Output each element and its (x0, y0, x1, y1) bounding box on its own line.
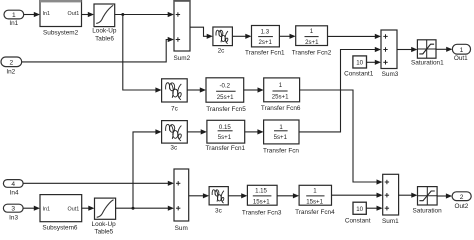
block Transfer Fcn3 (1.15 / 15s+1) (242, 185, 282, 216)
svg-text:Out1: Out1 (68, 11, 80, 17)
svg-text:10: 10 (356, 206, 363, 213)
wire Transfer Fcn4 to Sum1 input 2 (332, 193, 383, 198)
wire 3c to Transfer Fcn3 (228, 193, 247, 198)
junction node at Look-Up Table6 output (121, 13, 124, 16)
svg-text:0.15: 0.15 (219, 124, 231, 131)
block 2c (213, 27, 233, 55)
wire Saturation to Out2 (437, 193, 452, 198)
svg-text:7c: 7c (171, 105, 179, 112)
junction node on Look-Up Table5 output (132, 207, 135, 210)
input port In2 (1, 57, 22, 76)
svg-text:Look-Up: Look-Up (92, 27, 117, 34)
svg-text:15s+1: 15s+1 (306, 198, 323, 205)
wire Transfer Fcn up to Sum3 input 2 (299, 47, 381, 132)
svg-text:Subsystem2: Subsystem2 (43, 30, 79, 37)
svg-text:Table5: Table5 (94, 228, 113, 235)
wire In3 to Subsystem6 (23, 206, 40, 211)
svg-text:1: 1 (12, 12, 16, 19)
svg-text:-0.2: -0.2 (220, 83, 231, 90)
svg-text:10: 10 (356, 59, 363, 66)
wire In4 to Sum input 1 (23, 181, 174, 186)
wire Transfer Fcn2 to Sum3 input 1 (328, 34, 382, 39)
svg-text:Out1: Out1 (68, 207, 80, 213)
wire 2c to Transfer Fcn1 (232, 34, 251, 39)
svg-text:Sum2: Sum2 (173, 55, 190, 62)
constant block Constant (10) (345, 202, 371, 225)
svg-text:Transfer Fcn3: Transfer Fcn3 (242, 209, 282, 216)
subsystem U-Subsystem2 (40, 0, 82, 37)
svg-text:Transfer Fcn1: Transfer Fcn1 (245, 50, 285, 57)
sum block Sum (174, 169, 189, 232)
wire Subsystem6 to Look-Up Table5 (82, 206, 95, 211)
svg-text:3: 3 (11, 206, 15, 213)
svg-text:4: 4 (11, 181, 15, 188)
svg-text:Subsystem6: Subsystem6 (42, 224, 78, 231)
svg-text:1.15: 1.15 (255, 188, 267, 195)
svg-text:3c: 3c (215, 208, 223, 215)
wire Subsystem2 to Look-Up Table6 (82, 12, 95, 17)
svg-text:25s+1: 25s+1 (217, 94, 234, 101)
svg-text:3c: 3c (170, 145, 178, 152)
svg-text:Out2: Out2 (454, 203, 468, 210)
wire Transfer Fcn3 to Transfer Fcn4 (277, 193, 299, 198)
wire In1 to Subsystem2 (24, 12, 40, 17)
svg-text:Sum1: Sum1 (382, 218, 399, 225)
wire Look-Up Table6 to Sum2 (115, 12, 174, 17)
sum block Sum3 (381, 30, 399, 78)
svg-text:Sum: Sum (175, 225, 188, 232)
wire Sum2 to 2c (190, 27, 213, 39)
svg-text:In3: In3 (9, 214, 18, 221)
wire Sum3 to Saturation1 (397, 47, 417, 52)
wire Sum1 to Saturation (399, 193, 418, 198)
svg-text:15s+1: 15s+1 (253, 198, 270, 205)
svg-text:Sum3: Sum3 (382, 71, 399, 78)
output port Out2 (452, 192, 471, 210)
svg-text:5s+1: 5s+1 (274, 134, 288, 141)
output port Out1 (452, 44, 470, 62)
sum block Sum1 (382, 174, 399, 225)
wire Look-Up Table5 to Sum input 2 (116, 206, 174, 211)
svg-text:1: 1 (279, 82, 283, 89)
wire 3c to Transfer Fcn1 (middle) (187, 129, 207, 134)
svg-text:In2: In2 (6, 69, 15, 76)
wire Transfer Fcn6 down to Sum1 input 1 (300, 90, 383, 185)
svg-text:1: 1 (460, 47, 464, 54)
svg-text:In4: In4 (10, 190, 19, 197)
svg-text:25s+1: 25s+1 (272, 94, 289, 101)
subsystem U-Subsystem6 (40, 195, 82, 232)
input port In4 (3, 180, 23, 197)
input port In1 (4, 10, 24, 27)
block 3c (bottom row) (209, 187, 228, 215)
svg-text:5s+1: 5s+1 (218, 134, 232, 141)
svg-text:Transfer Fcn2: Transfer Fcn2 (292, 50, 332, 57)
svg-text:Transfer Fcn: Transfer Fcn (263, 147, 299, 154)
wire 7c to Transfer Fcn5 (187, 87, 206, 92)
svg-text:2c: 2c (218, 48, 226, 55)
svg-text:1.3: 1.3 (261, 28, 270, 35)
block Look-Up Table5 (92, 198, 117, 235)
block Transfer Fcn1 (1.3 / 2s+1) (245, 26, 285, 57)
wire branch from LUT5 junction up to 3c (middle row) (133, 129, 162, 208)
input port In3 (3, 204, 23, 221)
block Transfer Fcn1 middle (0.15 / 5s+1) (206, 120, 246, 152)
svg-text:Look-Up: Look-Up (92, 221, 117, 228)
wire In2 to Sum2 lower input (22, 37, 174, 62)
svg-text:In1: In1 (9, 20, 18, 27)
block Look-Up Table6 (92, 4, 117, 42)
svg-text:Constant1: Constant1 (344, 71, 374, 78)
block Transfer Fcn5 (-0.2 / 25s+1) (206, 78, 246, 113)
wire junction down to 7c (123, 15, 162, 93)
constant block Constant1 (10) (344, 56, 374, 78)
svg-text:Transfer Fcn4: Transfer Fcn4 (295, 209, 335, 216)
wire Transfer Fcn1 to Transfer Fcn2 (279, 34, 295, 39)
block Saturation1 (411, 40, 444, 67)
block 7c (162, 79, 188, 113)
svg-text:2: 2 (9, 60, 13, 67)
block 3c (middle row) (162, 121, 188, 152)
sum block Sum2 (173, 0, 190, 62)
svg-text:In1: In1 (43, 207, 51, 213)
svg-text:2s+1: 2s+1 (259, 39, 273, 46)
svg-text:Saturation: Saturation (413, 208, 443, 215)
block Transfer Fcn (1 / 5s+1) (263, 120, 299, 154)
block Transfer Fcn6 (1 / 25s+1) (261, 78, 301, 112)
svg-text:Transfer Fcn5: Transfer Fcn5 (206, 106, 246, 113)
svg-text:Saturation1: Saturation1 (411, 59, 444, 66)
svg-text:1: 1 (313, 187, 317, 194)
block Saturation (413, 187, 443, 215)
wire Saturation1 to Out1 (436, 47, 452, 52)
block Transfer Fcn2 (1 / 2s+1) (292, 26, 332, 57)
wire Transfer Fcn5 to Transfer Fcn6 (244, 87, 264, 92)
svg-text:Transfer Fcn6: Transfer Fcn6 (261, 105, 301, 112)
svg-text:In1: In1 (43, 11, 51, 17)
svg-text:2: 2 (460, 194, 464, 201)
block Transfer Fcn4 (1 / 15s+1) (295, 185, 335, 216)
svg-text:Transfer Fcn1: Transfer Fcn1 (206, 145, 246, 152)
wire middle Transfer Fcn1 to Transfer Fcn (245, 129, 264, 134)
wire Constant1 to Sum3 input 3 (367, 60, 382, 65)
svg-text:Constant: Constant (345, 218, 371, 225)
svg-text:Out1: Out1 (454, 55, 468, 62)
svg-text:Table6: Table6 (95, 35, 114, 42)
svg-text:2s+1: 2s+1 (305, 39, 319, 46)
wire Sum to 3c (bottom) (189, 193, 209, 198)
wire Constant to Sum1 input 3 (366, 206, 382, 211)
